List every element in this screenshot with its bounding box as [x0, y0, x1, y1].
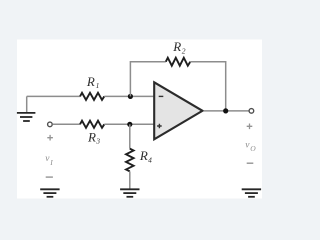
wire: R2 right then down to output node	[190, 62, 225, 111]
wire: R4 down to ground	[129, 171, 131, 188]
resistor R1	[80, 93, 104, 100]
wire: R1 to op-amp inverting input	[104, 95, 155, 97]
resistor R3	[80, 121, 104, 128]
resistor R2	[166, 58, 191, 66]
wire: R3 to op-amp non-inverting input	[104, 123, 155, 125]
ground (below vI terminal)	[40, 189, 59, 197]
node A (junction of R1, R2, inverting input)	[128, 94, 133, 99]
wire: stem down to left ground	[26, 96, 28, 112]
input terminal vI (open circle)	[48, 122, 53, 127]
node C (output node)	[223, 108, 228, 113]
label + (vO polarity)	[247, 124, 253, 130]
ground (left, on inverting input line)	[17, 113, 36, 121]
label + (vI polarity)	[47, 135, 53, 141]
svg-text:R: R	[87, 129, 96, 144]
label - (vI polarity)	[46, 176, 53, 178]
svg-text:R: R	[139, 148, 148, 163]
ground (below R4)	[120, 189, 139, 197]
output terminal vO (open circle)	[249, 109, 254, 114]
svg-text:3: 3	[95, 137, 100, 146]
node B (junction of R3, R4, non-inverting input)	[127, 122, 132, 127]
svg-text:R: R	[172, 39, 181, 54]
wire: node B down to R4	[129, 124, 131, 148]
wire: feedback up and across to R2	[130, 62, 165, 97]
op-amp U1	[154, 82, 202, 139]
svg-text:4: 4	[148, 155, 152, 164]
resistor R4	[126, 149, 134, 172]
svg-text:O: O	[250, 144, 256, 153]
svg-text:I: I	[49, 158, 53, 167]
svg-text:R: R	[86, 74, 95, 89]
svg-text:2: 2	[182, 47, 186, 56]
wire: vI terminal to R3	[53, 123, 81, 125]
label - (vO polarity)	[247, 162, 254, 164]
figure panel	[17, 40, 262, 199]
svg-text:1: 1	[96, 81, 100, 90]
wire: left horizontal to R1	[27, 95, 80, 97]
inverting input marker -	[159, 95, 164, 97]
non-inverting input marker +	[157, 124, 162, 129]
ground (below vO terminal)	[242, 189, 261, 197]
wire: op-amp output to vO terminal	[204, 110, 249, 112]
